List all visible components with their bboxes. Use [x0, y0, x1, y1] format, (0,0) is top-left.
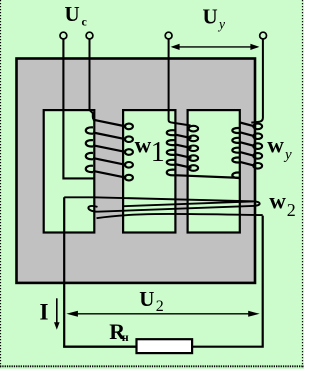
core window 3 (right) [188, 110, 240, 232]
svg-text:I: I [40, 300, 49, 325]
core window 2 (middle) [123, 110, 175, 232]
winding w2 turn 2 top line [124, 201, 253, 206]
winding w2 turn 1 top line [64, 197, 253, 201]
svg-text:w: w [135, 132, 152, 157]
winding w1 coil on left-middle leg [86, 120, 126, 178]
wire: w2 left terminal down [63, 197, 65, 346]
svg-text:2: 2 [156, 298, 164, 315]
svg-text:w: w [269, 189, 286, 214]
wire: Uy right terminal down to wy coil top [251, 39, 263, 123]
svg-text:U: U [139, 287, 154, 311]
dimension arrow Uy (double headed) [173, 46, 258, 48]
svg-text:c: c [82, 15, 88, 29]
winding w2 right end loop [253, 201, 260, 206]
svg-text:U: U [65, 2, 80, 26]
winding wy coil on right leg [232, 123, 254, 178]
frame dotted border right [302, 0, 304, 369]
svg-text:2: 2 [287, 200, 296, 220]
wire: Uc right terminal to w1 top [90, 39, 97, 121]
wire: Uc left terminal down to w1 bottom [63, 39, 94, 179]
winding w2 turn 2 bottom line [97, 214, 263, 218]
terminal circle Uy left [165, 32, 172, 39]
svg-text:w: w [267, 132, 284, 157]
frame dotted border left [0, 0, 2, 369]
frame dotted border bottom [0, 365, 304, 367]
wire: bottom left to load resistor [63, 346, 136, 348]
winding w2 turn 1 return line [98, 206, 254, 212]
terminal circle Uy right [260, 32, 267, 39]
winding wy coil section on middle leg [167, 130, 240, 178]
svg-text:н: н [122, 330, 129, 344]
terminal circle Uc left [60, 32, 67, 39]
terminal circle Uc right [86, 32, 93, 39]
svg-text:y: y [217, 16, 225, 31]
svg-text:U: U [203, 5, 218, 29]
magnetic core outer [17, 59, 256, 283]
winding w2 left end loop [88, 206, 97, 212]
svg-text:1: 1 [151, 137, 165, 168]
resistor Rн body [137, 339, 193, 353]
current arrow I [56, 298, 58, 322]
wire: w2 right terminal down and bottom right [192, 216, 263, 347]
wire: Uy left terminal to control coil top [169, 39, 191, 126]
dimension arrow U2 (double headed) [69, 313, 257, 315]
core window 1 (left) [44, 110, 95, 232]
svg-text:y: y [283, 147, 292, 163]
